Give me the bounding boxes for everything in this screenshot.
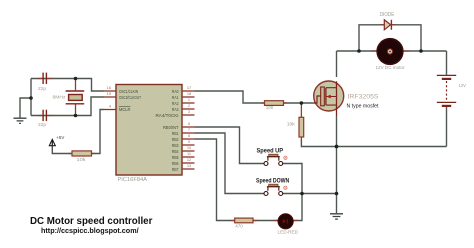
node diode left (357, 49, 361, 53)
svg-text:RA2: RA2 (172, 101, 179, 106)
pin MCLR 4 (104, 104, 131, 112)
wire ground branch (20, 98, 32, 118)
wire MCLR to pullup (92, 110, 105, 154)
LED D2 LED-RED (274, 214, 299, 236)
crystal X1 8MHz (53, 79, 85, 116)
svg-text:LED-RED: LED-RED (278, 229, 299, 235)
pin RA0 17 (172, 85, 195, 94)
svg-text:RB4: RB4 (172, 149, 179, 154)
motor M1 12V DC motor (371, 39, 409, 72)
svg-text:DC Motor speed controller: DC Motor speed controller (30, 216, 153, 227)
wire source ground line (301, 140, 446, 147)
svg-text:RB7: RB7 (172, 167, 179, 172)
pin OSC2/CLKOUT 15 (104, 91, 141, 100)
pin RB1 7 (172, 127, 195, 136)
svg-text:RB2: RB2 (172, 137, 179, 142)
svg-text:Speed UP: Speed UP (257, 148, 284, 155)
svg-text:RA4/T0CKI: RA4/T0CKI (156, 113, 179, 118)
wire SpeedUP right down to LED (283, 164, 302, 221)
wire RB0 to SpeedUP (195, 127, 264, 164)
svg-text:8MHz: 8MHz (53, 94, 67, 100)
svg-text:12V DC motor: 12V DC motor (376, 65, 405, 71)
pin RB6 12 (172, 157, 195, 166)
svg-text:RB1: RB1 (172, 131, 179, 136)
svg-text:DIODE: DIODE (380, 12, 395, 18)
svg-text:2: 2 (188, 103, 190, 108)
wire pullup to +5V (52, 146, 72, 154)
pin RA4/T0CKI 3 (156, 109, 195, 118)
svg-text:RB3: RB3 (172, 143, 179, 148)
wire osc top rail (31, 79, 104, 92)
svg-text:OSC2/CLKOUT: OSC2/CLKOUT (119, 95, 141, 100)
ground (main) (330, 214, 343, 219)
svg-text:N type mosfet: N type mosfet (347, 104, 379, 110)
svg-text:RA3: RA3 (172, 107, 179, 112)
svg-text:11: 11 (187, 151, 191, 156)
svg-text:1: 1 (188, 97, 190, 102)
node ground tap (29, 96, 33, 100)
wire source down to ground (336, 116, 338, 213)
svg-text:12V: 12V (459, 83, 467, 89)
node source junction (335, 145, 339, 149)
svg-text:http://ccspicc.blogspot.com/: http://ccspicc.blogspot.com/ (41, 228, 139, 235)
svg-text:8: 8 (188, 133, 190, 138)
pin RA3 2 (172, 103, 195, 112)
node ground junction (335, 192, 339, 196)
svg-text:3: 3 (188, 109, 190, 114)
wire RB2 to led resistor (195, 139, 235, 221)
pin RB5 11 (172, 151, 195, 160)
svg-text:17: 17 (187, 85, 191, 90)
wire SpeedDOWN right to ground line (283, 193, 337, 195)
node diode right (419, 49, 423, 53)
wire battery bottom (446, 107, 448, 147)
svg-text:18: 18 (187, 91, 191, 96)
pin RB0/INT 6 (163, 121, 195, 130)
wire drain to motor (336, 51, 338, 77)
svg-text:RA1: RA1 (172, 95, 179, 100)
resistor R2 100 (gate series) (261, 101, 287, 110)
pin RB7 13 (172, 163, 195, 172)
wire left vertical (30, 79, 32, 116)
wire gate node (284, 102, 315, 104)
svg-text:10k: 10k (287, 122, 296, 127)
wire RB1 to SpeedDOWN (195, 133, 264, 194)
button SW2 Speed DOWN (256, 178, 290, 196)
diode D1 (380, 12, 396, 30)
svg-text:+5V: +5V (56, 135, 65, 141)
capacitor C2 22p (38, 110, 52, 128)
node gate junction (300, 101, 304, 105)
svg-text:IRF3205S: IRF3205S (348, 94, 379, 100)
pin RB3 9 (172, 139, 195, 148)
svg-text:RB0/INT: RB0/INT (163, 125, 179, 130)
wire motor line (337, 50, 447, 52)
svg-text:470: 470 (235, 224, 243, 229)
resistor R3 10k (gate pulldown) (287, 103, 304, 141)
wire diode loop (359, 25, 421, 51)
svg-text:Speed DOWN: Speed DOWN (256, 178, 290, 185)
svg-text:10k: 10k (77, 157, 87, 162)
svg-text:RB5: RB5 (172, 155, 179, 160)
svg-text:9: 9 (188, 139, 190, 144)
svg-text:22p: 22p (38, 86, 46, 92)
node osc bottom junction (74, 114, 78, 118)
svg-text:12: 12 (187, 157, 191, 162)
svg-text:OSC1/CLKIN: OSC1/CLKIN (119, 89, 138, 94)
svg-text:13: 13 (187, 163, 191, 168)
pin RA2 1 (172, 97, 195, 106)
svg-text:MCLR: MCLR (119, 107, 131, 112)
svg-text:15: 15 (107, 91, 111, 96)
node button common (300, 192, 304, 196)
battery B1 12V (437, 75, 467, 106)
IC U1 PIC16F84A (116, 85, 182, 184)
wire resistor to LED (253, 220, 278, 222)
resistor R4 470 (LED) (231, 218, 257, 228)
pin RA1 18 (172, 91, 195, 100)
svg-text:RA0: RA0 (172, 89, 179, 94)
svg-text:6: 6 (188, 121, 190, 126)
pin RB4 10 (172, 145, 195, 154)
wire osc bottom rail (31, 97, 104, 116)
mosfet Q1 IRF3205S (314, 81, 379, 116)
node osc top junction (74, 77, 78, 81)
svg-text:22p: 22p (38, 122, 46, 128)
button SW1 Speed UP (257, 148, 288, 166)
pin OSC1/CLKIN 16 (104, 85, 138, 94)
wire battery top (446, 51, 448, 75)
ground (osc) (14, 118, 27, 123)
capacitor C1 22p (38, 73, 52, 92)
svg-text:16: 16 (107, 85, 111, 90)
resistor R1 10k (MCLR pullup) (68, 151, 96, 162)
wire RA0 to gate resistor (195, 91, 265, 103)
pin RB2 8 (172, 133, 195, 142)
power +5V (49, 135, 65, 146)
svg-text:PIC16F84A: PIC16F84A (118, 177, 148, 183)
svg-text:RB6: RB6 (172, 161, 179, 166)
svg-text:100: 100 (266, 105, 274, 110)
svg-text:7: 7 (188, 127, 190, 132)
